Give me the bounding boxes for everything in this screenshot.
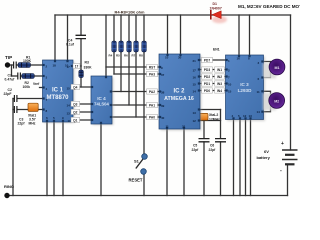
label boxes Q outputs bbox=[71, 63, 80, 122]
wire ground bus bbox=[7, 195, 288, 197]
pin tabs IC4 bbox=[91, 76, 112, 124]
svg-text:13: 13 bbox=[193, 111, 197, 115]
svg-text:100k: 100k bbox=[23, 85, 31, 89]
wire R2 to IC1 pin3 bbox=[34, 75, 43, 77]
svg-text:21: 21 bbox=[193, 59, 197, 63]
pin numbers IC3 bbox=[228, 57, 260, 119]
svg-text:1N4007: 1N4007 bbox=[210, 7, 222, 11]
svg-text:22pF: 22pF bbox=[4, 92, 12, 96]
pin tabs IC2 bbox=[159, 54, 200, 129]
resistor R2 100k bbox=[22, 74, 35, 79]
svg-text:31: 31 bbox=[182, 125, 186, 129]
capacitor C2 22pF plates bbox=[14, 95, 17, 102]
svg-text:11: 11 bbox=[68, 119, 72, 123]
svg-text:PA2: PA2 bbox=[149, 90, 155, 94]
wire rail to IC2 VCC bbox=[167, 15, 169, 54]
wire IC1 pin6 to ground bbox=[46, 122, 48, 196]
motor M1 bbox=[263, 59, 285, 78]
capacitor C3 plates bbox=[18, 73, 21, 80]
resistor R6 bbox=[127, 41, 132, 52]
wire M2 bracket bbox=[264, 91, 271, 111]
wire PA2 row bbox=[112, 91, 159, 93]
svg-text:12MHz: 12MHz bbox=[209, 117, 220, 121]
svg-text:Q4: Q4 bbox=[73, 85, 77, 89]
svg-text:30: 30 bbox=[178, 56, 182, 60]
svg-text:IN4: IN4 bbox=[217, 89, 222, 93]
svg-text:R5: R5 bbox=[116, 54, 120, 58]
wire C5 to ground bbox=[203, 142, 205, 196]
svg-text:18: 18 bbox=[53, 64, 57, 68]
svg-text:IC 1: IC 1 bbox=[52, 88, 64, 94]
svg-text:22pf: 22pf bbox=[209, 148, 217, 152]
svg-text:330K: 330K bbox=[84, 65, 93, 69]
pin tabs IC1 bbox=[43, 60, 74, 122]
svg-text:R8: R8 bbox=[139, 54, 143, 58]
svg-text:6V: 6V bbox=[264, 149, 269, 154]
wire C3b row left bbox=[12, 109, 15, 111]
wire rail to IC2 AVCC bbox=[180, 15, 182, 54]
wire TIP branch down bbox=[11, 65, 13, 76]
resistor R1 100K bbox=[18, 63, 31, 68]
wire xtal bottom row bbox=[200, 120, 221, 122]
svg-text:RESET: RESET bbox=[129, 178, 143, 183]
wire RST row bbox=[106, 66, 159, 68]
pin tabs IC3 bbox=[226, 55, 264, 120]
label R3 value bbox=[84, 61, 93, 70]
wire R4 drop bbox=[113, 15, 115, 74]
label boxes IC3 left IN bbox=[215, 67, 225, 93]
svg-text:16: 16 bbox=[237, 57, 241, 61]
svg-text:L293D: L293D bbox=[238, 88, 252, 93]
svg-text:S1: S1 bbox=[134, 159, 140, 164]
wire rail to C4 bbox=[80, 15, 82, 35]
wire R3 bottom to Q4 row bbox=[80, 78, 82, 88]
wire xtal right vertical to C6 bbox=[220, 110, 222, 139]
label C5 value bbox=[192, 144, 200, 153]
svg-text:14: 14 bbox=[67, 104, 71, 108]
wire +5V top rail bbox=[55, 14, 291, 16]
crystal Xtal1 3.57MHz bbox=[28, 103, 38, 111]
label Xtal2 bbox=[209, 113, 220, 121]
svg-text:10: 10 bbox=[228, 83, 232, 87]
svg-text:37: 37 bbox=[161, 73, 165, 77]
wire C4 to node pin17 bbox=[80, 39, 82, 66]
svg-text:15: 15 bbox=[67, 87, 71, 91]
wire C3b row to IC1 bbox=[18, 109, 43, 111]
svg-text:100K: 100K bbox=[23, 59, 32, 63]
wire node to R3 top bbox=[80, 66, 82, 70]
svg-text:14: 14 bbox=[257, 110, 261, 114]
diode D1 1N4007 bbox=[211, 10, 227, 23]
wire IC4 pin7 to ground bbox=[100, 124, 102, 196]
svg-text:TIP: TIP bbox=[5, 55, 12, 60]
wire Q2 row IC1 to IC4 bbox=[73, 111, 91, 113]
svg-text:IN2: IN2 bbox=[217, 75, 222, 79]
label R1 value bbox=[23, 56, 32, 64]
resistor R5 bbox=[119, 41, 124, 52]
wire PD0 to IN4 row bbox=[200, 90, 226, 92]
svg-text:PA3: PA3 bbox=[149, 72, 155, 76]
IC U1 MT8870 bbox=[43, 60, 75, 123]
svg-text:Vref: Vref bbox=[33, 82, 40, 86]
svg-text:PA0: PA0 bbox=[149, 115, 155, 119]
wire rail to IC4 pin14 bbox=[105, 15, 107, 76]
label boxes IC2 right PD bbox=[202, 57, 213, 93]
wire IC1 pin9 to ground bbox=[62, 122, 64, 196]
label C3 value bbox=[5, 74, 16, 82]
svg-text:RST: RST bbox=[149, 65, 155, 69]
wire IC3 pin5 to ground bbox=[239, 120, 241, 196]
svg-text:12: 12 bbox=[193, 119, 197, 123]
wire Q3 row IC1 to IC4 bbox=[73, 103, 91, 105]
svg-text:MHz: MHz bbox=[29, 122, 36, 126]
wire xtal left vertical bbox=[199, 110, 201, 121]
svg-text:13: 13 bbox=[67, 112, 71, 116]
wire Q4 row IC1 to IC4 bbox=[73, 86, 91, 88]
wire PD2 to IN2 row bbox=[200, 76, 226, 78]
label C4 value bbox=[66, 39, 75, 47]
svg-text:PD1: PD1 bbox=[204, 82, 210, 86]
wire IC2 pin11 to ground bbox=[166, 129, 168, 196]
svg-text:39: 39 bbox=[161, 104, 165, 108]
svg-text:IN3: IN3 bbox=[217, 82, 222, 86]
svg-text:10: 10 bbox=[165, 56, 169, 60]
svg-text:38: 38 bbox=[161, 91, 165, 95]
wire R1 to IC1 pin2 bbox=[31, 64, 43, 66]
svg-text:RING: RING bbox=[4, 184, 14, 189]
label C3b value bbox=[18, 118, 26, 126]
svg-text:0.47uf: 0.47uf bbox=[5, 78, 16, 82]
wire IC3 pin13 to ground bbox=[250, 120, 252, 196]
svg-text:R3: R3 bbox=[85, 61, 89, 65]
svg-text:IC 4: IC 4 bbox=[97, 96, 106, 101]
wire C3 to R2 bbox=[20, 75, 23, 77]
svg-text:12: 12 bbox=[243, 114, 247, 118]
svg-text:M2: M2 bbox=[274, 100, 279, 104]
resistor R3 330K bbox=[79, 70, 84, 78]
svg-text:Q1: Q1 bbox=[73, 118, 77, 122]
wire PD1 to IN3 row bbox=[200, 83, 226, 85]
label boxes IC2 left bbox=[147, 64, 158, 119]
wire C1 to R1 bbox=[17, 64, 18, 66]
svg-text:17: 17 bbox=[193, 69, 197, 73]
wire PD7 to EN row bbox=[200, 59, 226, 61]
svg-text:R4-R8=10K ohm: R4-R8=10K ohm bbox=[115, 10, 145, 15]
svg-text:40: 40 bbox=[161, 116, 165, 120]
wire ground to crystal caps vertical bbox=[12, 99, 14, 196]
wire C5 branch bbox=[203, 121, 205, 139]
pin numbers IC2 bbox=[161, 56, 196, 129]
motor M2 bbox=[263, 93, 285, 111]
svg-text:11: 11 bbox=[257, 90, 261, 94]
wire R7 drop bbox=[135, 15, 137, 117]
svg-text:PD2: PD2 bbox=[204, 75, 210, 79]
svg-text:PD3: PD3 bbox=[204, 68, 210, 72]
svg-text:Q2: Q2 bbox=[73, 110, 77, 114]
wire battery minus to ground bus bbox=[287, 165, 289, 196]
switch S1 bbox=[136, 154, 148, 175]
wire IC2 pin31 to ground bbox=[183, 129, 185, 196]
pin numbers IC1 bbox=[46, 64, 72, 124]
capacitor C1 plates bbox=[14, 62, 17, 69]
label D1 bbox=[210, 2, 222, 11]
wire PD3 to IN1 row bbox=[200, 69, 226, 71]
wire PA0 row bbox=[112, 116, 159, 118]
wire PA1 row bbox=[112, 104, 159, 106]
label R2 value bbox=[23, 81, 31, 89]
resistor R7 bbox=[134, 41, 139, 52]
svg-text:PD7: PD7 bbox=[204, 58, 210, 62]
wire R5 drop bbox=[120, 15, 122, 92]
crystal Xtal2 12MHz bbox=[199, 113, 209, 120]
wire IC2 xtal top row bbox=[200, 109, 221, 111]
wire rail to IC3 pin8 bbox=[249, 15, 251, 55]
capacitor C6 plates bbox=[215, 139, 226, 142]
wire Vref stub bbox=[40, 87, 43, 89]
svg-text:13: 13 bbox=[249, 114, 253, 118]
wire switch S1 to ground bbox=[143, 174, 145, 196]
svg-text:IC 2: IC 2 bbox=[173, 89, 185, 95]
wire branch to C3 bbox=[12, 75, 18, 77]
svg-text:M1: M1 bbox=[275, 66, 280, 70]
svg-text:+: + bbox=[281, 141, 284, 147]
svg-text:C5: C5 bbox=[193, 144, 197, 148]
wire rail to IC1 pin10 bbox=[67, 15, 69, 60]
wire R6 drop bbox=[128, 15, 130, 105]
svg-text:15: 15 bbox=[193, 83, 197, 87]
svg-text:22pf: 22pf bbox=[18, 122, 26, 126]
svg-text:-: - bbox=[280, 168, 282, 174]
svg-text:Q3: Q3 bbox=[73, 102, 77, 106]
battery B1 6V bbox=[282, 150, 298, 164]
IC U3 L293D bbox=[226, 55, 266, 121]
wire C6 to ground bbox=[220, 142, 222, 196]
IC U2 ATMEGA16 bbox=[159, 54, 202, 131]
svg-text:14: 14 bbox=[193, 90, 197, 94]
svg-text:R4: R4 bbox=[109, 54, 113, 58]
svg-text:R7: R7 bbox=[132, 54, 136, 58]
wire rail to IC3 pin16 bbox=[238, 15, 240, 55]
wire R8 reset drop bbox=[143, 15, 145, 155]
node RING terminal bbox=[4, 193, 9, 198]
wire C2 row left bbox=[12, 98, 15, 100]
svg-text:17: 17 bbox=[75, 64, 79, 68]
IC U4 74LS04 bbox=[91, 76, 114, 125]
svg-text:15: 15 bbox=[228, 90, 232, 94]
resistor R4 bbox=[112, 41, 117, 52]
svg-text:battery: battery bbox=[257, 155, 271, 160]
wire IC1 pin5 to ground bbox=[53, 122, 55, 196]
svg-text:C6: C6 bbox=[210, 144, 214, 148]
svg-text:17: 17 bbox=[67, 65, 71, 69]
wire IC3 pin4 to ground bbox=[233, 120, 235, 196]
wire Q1 row IC1 to IC4 bbox=[73, 119, 91, 121]
resistor R8 bbox=[142, 41, 147, 52]
svg-text:R6: R6 bbox=[124, 54, 128, 58]
label battery 6V bbox=[257, 149, 271, 160]
svg-text:74LS04: 74LS04 bbox=[94, 102, 109, 107]
svg-text:16: 16 bbox=[193, 76, 197, 80]
wire TIP dot to C1 bbox=[9, 64, 13, 66]
svg-text:MT8870: MT8870 bbox=[46, 95, 69, 101]
wire right rail to battery + bbox=[290, 15, 292, 150]
svg-text:ATMEGA 16: ATMEGA 16 bbox=[164, 96, 194, 102]
svg-text:EN1: EN1 bbox=[213, 48, 220, 52]
wire M1 bracket bbox=[264, 62, 271, 78]
svg-text:11: 11 bbox=[166, 125, 170, 129]
svg-text:M1, M2=6V GEARED DC MOTO: M1, M2=6V GEARED DC MOTO bbox=[238, 4, 300, 9]
label C2 value bbox=[4, 88, 12, 96]
label C6 value bbox=[209, 144, 217, 153]
wire IC3 pin12 to ground bbox=[245, 120, 247, 196]
label Xtal1 bbox=[28, 114, 36, 126]
wire IC1 pin17 row bbox=[73, 65, 81, 67]
wire PA3 row bbox=[114, 73, 159, 75]
capacitor C3b 22pf plates bbox=[14, 106, 17, 113]
wire C2 row to IC1 bbox=[18, 98, 43, 100]
svg-text:IN1: IN1 bbox=[217, 68, 222, 72]
svg-text:PD0: PD0 bbox=[204, 89, 210, 93]
svg-text:22pf: 22pf bbox=[192, 148, 200, 152]
node TIP terminal bbox=[5, 62, 10, 67]
wire rail to IC1 pin18 bbox=[54, 15, 56, 60]
capacitor C5 plates bbox=[199, 139, 210, 142]
svg-text:IC 3: IC 3 bbox=[240, 82, 249, 87]
capacitor C4 plates bbox=[76, 35, 87, 38]
svg-text:0.1uf: 0.1uf bbox=[66, 43, 75, 47]
svg-text:PA1: PA1 bbox=[149, 103, 155, 107]
svg-text:D1: D1 bbox=[213, 2, 218, 6]
